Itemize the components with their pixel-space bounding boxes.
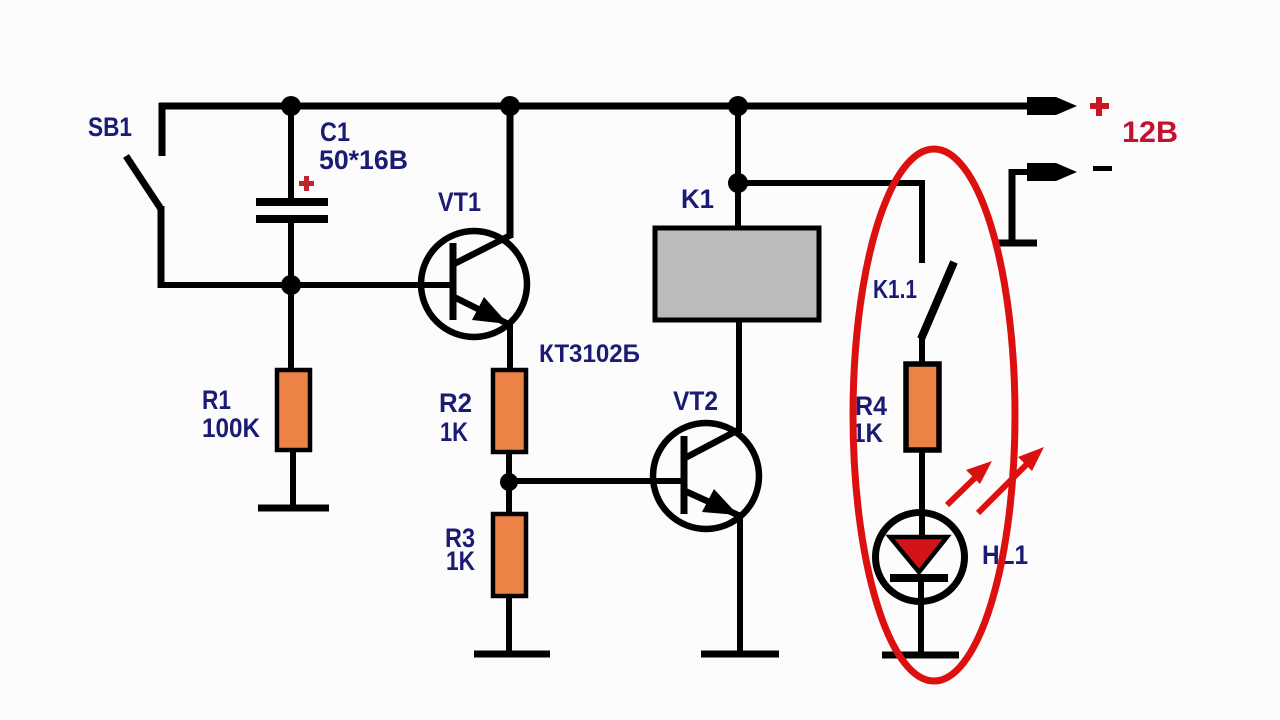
capacitor C1 [256, 198, 328, 223]
svg-text:SB1: SB1 [88, 112, 132, 142]
svg-text:VT1: VT1 [438, 187, 481, 217]
svg-text:VT2: VT2 [673, 386, 718, 416]
node junction R2 R3 base VT2 [500, 473, 518, 491]
wire VT1 collector lead from rail [507, 103, 514, 238]
resistor R1 [277, 370, 310, 450]
resistor R2 [493, 370, 526, 452]
resistor R4 [906, 364, 939, 450]
light emission arrow 1 [947, 461, 992, 505]
LED HL1 [876, 513, 965, 656]
svg-text:R2: R2 [439, 388, 472, 418]
wire R3 bottom lead [506, 596, 512, 654]
wire C1 bottom lead [288, 223, 294, 370]
wire negative terminal lead [997, 163, 1077, 243]
wire R2 to R3 [506, 452, 512, 514]
svg-text:C1: C1 [320, 117, 350, 147]
svg-text:K1: K1 [681, 184, 714, 214]
svg-text:100K: 100K [202, 413, 260, 443]
wire VT1 emitter to R2 [507, 324, 513, 372]
wire to contact K1.1 [738, 183, 925, 263]
light emission arrow 2 [978, 447, 1044, 513]
label + positive terminal [1090, 97, 1109, 116]
label - negative sign [1093, 166, 1112, 171]
node junction at R1 top [281, 275, 301, 295]
svg-text:12В: 12В [1122, 116, 1178, 149]
wire VT2 emitter lead [737, 516, 743, 654]
svg-text:R4: R4 [855, 391, 887, 421]
label + polarity of C1 [299, 176, 314, 191]
wire relay bottom to VT2 collector [736, 320, 742, 432]
wire base of VT2 [509, 478, 684, 484]
transistor VT2 [653, 423, 759, 529]
node junction at VT1 collector rail [500, 96, 520, 116]
resistor R3 [493, 514, 526, 596]
node junction relay at rail [728, 96, 748, 116]
node junction relay contact tap [728, 173, 748, 193]
ground below VT2 [701, 651, 779, 658]
svg-text:K1.1: K1.1 [873, 274, 917, 304]
wire base of VT1 [158, 282, 452, 288]
wire C1 top lead [288, 106, 294, 201]
svg-text:R1: R1 [202, 385, 231, 415]
wire R4 to HL1 [919, 450, 925, 540]
switch SB1 [126, 103, 162, 288]
ground below R1 [258, 505, 329, 512]
wire top positive rail [159, 97, 1077, 115]
highlight ellipse around indicator branch [853, 149, 1015, 681]
svg-text:1K: 1K [440, 417, 468, 447]
transistor VT1 [421, 231, 527, 337]
ground below R3 [474, 651, 550, 658]
relay coil K1 [655, 228, 819, 320]
node junction at C1 top [281, 96, 301, 116]
svg-text:1K: 1K [446, 546, 475, 576]
ground below HL1 [882, 652, 959, 659]
wire relay top lead [735, 106, 741, 228]
svg-text:50*16В: 50*16В [319, 145, 408, 175]
wire R1 bottom lead [290, 450, 296, 508]
svg-text:КТ3102Б: КТ3102Б [539, 340, 640, 368]
switch K1.1 [921, 262, 954, 339]
wire K1.1 to R4 [919, 338, 925, 366]
